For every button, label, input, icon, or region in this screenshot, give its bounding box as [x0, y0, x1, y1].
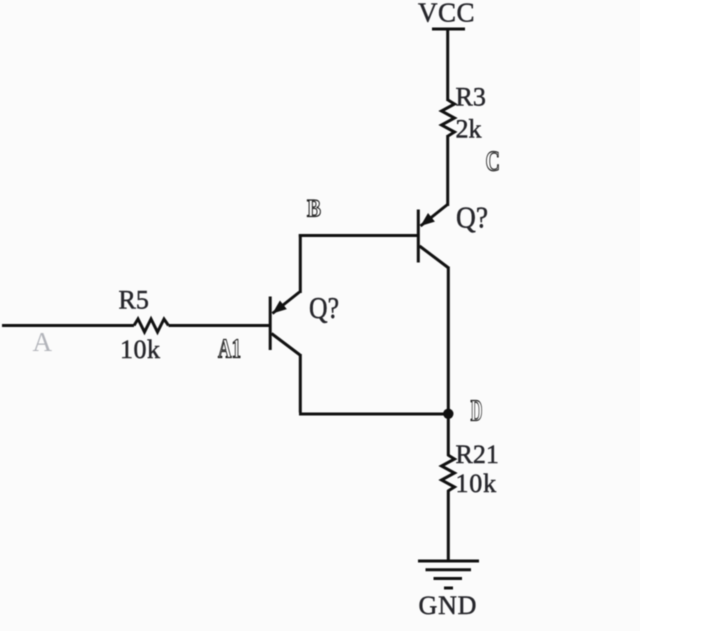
wire Q1 collector to node D — [447, 267, 450, 415]
svg-text:R21: R21 — [456, 440, 499, 469]
svg-text:Q?: Q? — [456, 200, 488, 235]
svg-text:Q?: Q? — [309, 290, 339, 325]
node A1 — [218, 334, 241, 364]
node D — [471, 393, 483, 428]
node B — [307, 196, 321, 223]
wire R21 to ground — [447, 490, 450, 561]
svg-text:B: B — [307, 196, 321, 223]
wire R3 to Q1 emitter — [446, 135, 449, 206]
transistor Q2 — [270, 290, 339, 355]
wire Q1 base to node B corner — [299, 234, 417, 293]
resistor R21 — [442, 440, 499, 498]
node C — [486, 146, 501, 178]
svg-text:2k: 2k — [456, 115, 482, 144]
svg-text:A: A — [33, 327, 53, 357]
wire D to R21 — [447, 414, 450, 456]
svg-text:VCC: VCC — [418, 0, 475, 28]
svg-text:R5: R5 — [119, 286, 149, 315]
wire Q2 collector to node D — [299, 354, 448, 414]
svg-text:A1: A1 — [218, 334, 241, 364]
svg-text:R3: R3 — [456, 83, 486, 112]
junction D dot — [443, 409, 453, 419]
wire input A — [2, 324, 134, 327]
wire R5 to Q2 base — [169, 324, 270, 327]
ground — [418, 561, 479, 620]
transistor Q1 — [418, 200, 488, 268]
node A — [33, 327, 53, 357]
svg-text:GND: GND — [419, 591, 478, 620]
svg-text:10k: 10k — [120, 335, 161, 364]
svg-text:10k: 10k — [456, 469, 497, 498]
power VCC symbol — [418, 0, 475, 29]
resistor R3 — [442, 83, 486, 144]
wire VCC to R3 — [446, 29, 449, 101]
resistor R5 — [119, 286, 169, 365]
svg-text:D: D — [471, 393, 483, 428]
svg-text:C: C — [486, 146, 501, 178]
